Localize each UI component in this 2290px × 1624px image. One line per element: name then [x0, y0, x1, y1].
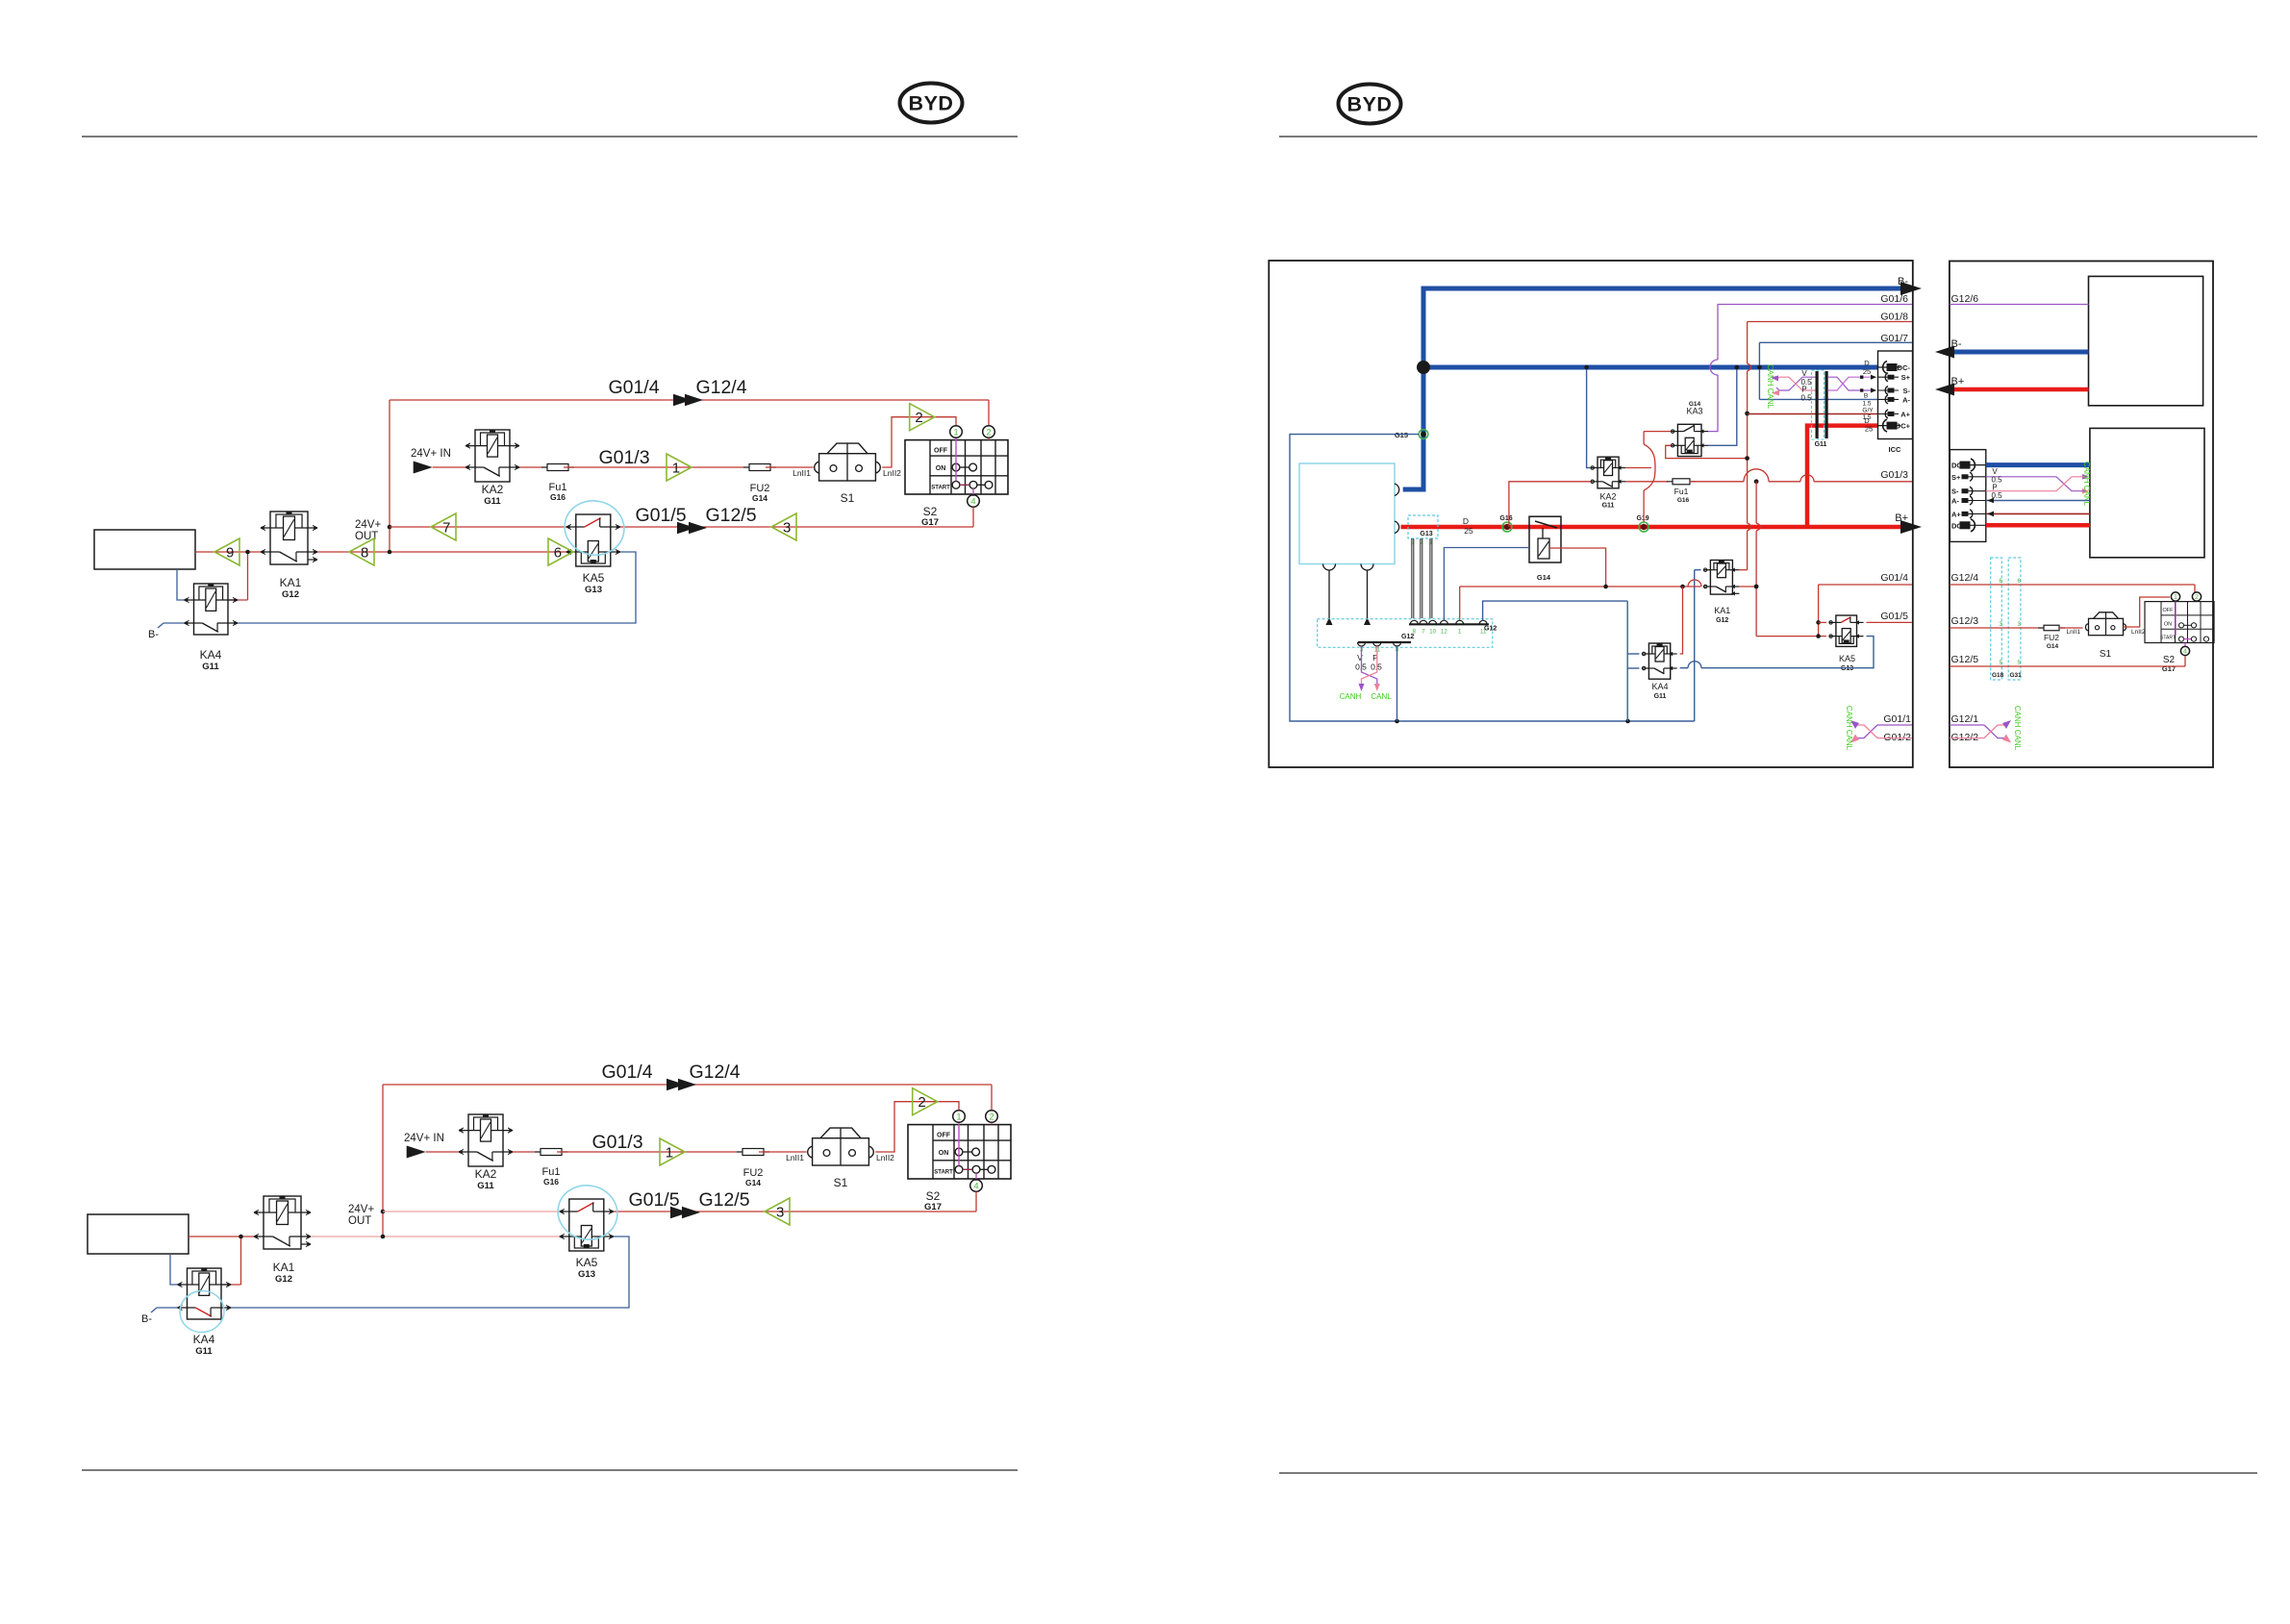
- svg-text:G12: G12: [1716, 617, 1728, 624]
- svg-text:G11: G11: [477, 1181, 494, 1191]
- svg-text:G16: G16: [1677, 497, 1690, 504]
- svg-text:Fu1: Fu1: [1674, 487, 1689, 496]
- svg-text:G01/3: G01/3: [598, 447, 649, 468]
- svg-text:4: 4: [2183, 647, 2187, 656]
- svg-text:11: 11: [1480, 630, 1487, 636]
- svg-text:3: 3: [776, 1205, 784, 1221]
- svg-text:G14: G14: [745, 1178, 761, 1187]
- svg-text:G01/8: G01/8: [1880, 312, 1908, 323]
- svg-text:24V+ IN: 24V+ IN: [404, 1133, 444, 1144]
- svg-text:LnII2: LnII2: [876, 1153, 894, 1162]
- svg-text:25: 25: [1863, 367, 1871, 376]
- svg-text:S+: S+: [1951, 473, 1961, 482]
- svg-text:LnII1: LnII1: [793, 468, 811, 478]
- svg-text:S2: S2: [926, 1189, 941, 1203]
- svg-text:2: 2: [2195, 592, 2199, 601]
- svg-text:LnII1: LnII1: [2067, 629, 2081, 636]
- svg-text:G13: G13: [578, 1269, 595, 1280]
- svg-text:LnII2: LnII2: [883, 468, 901, 478]
- svg-text:S-: S-: [1903, 387, 1911, 395]
- svg-text:G11: G11: [1815, 441, 1827, 448]
- svg-text:G12: G12: [1401, 634, 1414, 640]
- svg-text:D: D: [1463, 516, 1469, 526]
- svg-text:OFF: OFF: [2163, 608, 2175, 613]
- svg-text:A+: A+: [1951, 510, 1961, 518]
- svg-text:3: 3: [783, 520, 791, 537]
- svg-text:7: 7: [442, 520, 450, 537]
- svg-text:1: 1: [2174, 592, 2177, 601]
- svg-text:G13: G13: [1841, 665, 1853, 672]
- svg-text:G01/7: G01/7: [1880, 333, 1908, 344]
- svg-text:25: 25: [1464, 526, 1473, 536]
- svg-text:CANH CANL: CANH CANL: [2013, 706, 2022, 751]
- svg-text:4: 4: [973, 1181, 978, 1191]
- svg-text:1: 1: [956, 1112, 961, 1122]
- svg-text:LnII1: LnII1: [786, 1153, 804, 1162]
- svg-text:G16: G16: [550, 492, 566, 502]
- svg-text:ICC: ICC: [1889, 445, 1902, 454]
- svg-text:25: 25: [1865, 425, 1873, 434]
- svg-text:G12: G12: [282, 589, 299, 600]
- svg-text:24V+: 24V+: [348, 1204, 374, 1215]
- svg-text:KA2: KA2: [475, 1167, 497, 1181]
- svg-text:G01/1: G01/1: [1883, 713, 1911, 725]
- svg-text:P: P: [1801, 386, 1806, 394]
- svg-text:G11: G11: [202, 662, 219, 672]
- svg-text:KA1: KA1: [273, 1261, 295, 1274]
- svg-text:G14: G14: [2047, 643, 2059, 650]
- svg-text:G15: G15: [1395, 431, 1408, 439]
- svg-text:G01/3: G01/3: [1880, 469, 1908, 481]
- svg-text:B+: B+: [1951, 376, 1965, 387]
- svg-text:OFF: OFF: [934, 448, 948, 455]
- svg-text:B-: B-: [1951, 338, 1962, 350]
- svg-text:KA1: KA1: [1714, 606, 1730, 615]
- svg-text:G12/3: G12/3: [1951, 615, 1979, 627]
- svg-text:2: 2: [918, 1094, 925, 1111]
- svg-text:G12/5: G12/5: [1951, 654, 1979, 665]
- svg-text:ON: ON: [939, 1150, 949, 1157]
- svg-text:1.5: 1.5: [1862, 401, 1871, 408]
- svg-text:2: 2: [986, 427, 991, 437]
- svg-text:CANL: CANL: [1371, 692, 1392, 701]
- svg-text:0.5: 0.5: [1800, 394, 1812, 403]
- svg-text:G19: G19: [1636, 515, 1648, 522]
- svg-text:G01/6: G01/6: [1880, 293, 1908, 305]
- svg-text:BYD: BYD: [909, 92, 954, 115]
- svg-text:B: B: [1864, 393, 1868, 400]
- svg-text:0.5: 0.5: [1371, 662, 1382, 672]
- svg-text:OFF: OFF: [937, 1133, 951, 1139]
- svg-text:1: 1: [953, 427, 958, 437]
- svg-text:START: START: [934, 1170, 953, 1176]
- svg-text:G11: G11: [1602, 503, 1615, 510]
- svg-text:ON: ON: [936, 465, 946, 472]
- svg-text:1: 1: [666, 1145, 673, 1162]
- svg-text:12: 12: [1441, 630, 1447, 636]
- svg-text:2: 2: [915, 410, 922, 426]
- svg-text:KA3: KA3: [1686, 407, 1702, 416]
- svg-text:G01/3: G01/3: [591, 1132, 642, 1153]
- svg-text:G12: G12: [275, 1274, 292, 1285]
- svg-text:D: D: [1864, 359, 1870, 367]
- svg-text:G14: G14: [752, 493, 768, 503]
- svg-text:G13: G13: [1420, 531, 1432, 537]
- svg-text:9: 9: [226, 545, 234, 562]
- svg-text:S+: S+: [1901, 373, 1911, 382]
- svg-text:A-: A-: [1902, 395, 1910, 404]
- svg-text:B-: B-: [1898, 276, 1908, 287]
- svg-text:G16: G16: [1499, 515, 1512, 522]
- svg-text:CANH CANL: CANH CANL: [2082, 462, 2091, 507]
- svg-text:24V+: 24V+: [355, 519, 381, 531]
- svg-text:4: 4: [970, 496, 975, 507]
- svg-text:A-: A-: [1951, 497, 1959, 506]
- svg-text:KA4: KA4: [1651, 682, 1668, 691]
- svg-text:S-: S-: [1951, 487, 1959, 496]
- svg-text:B-: B-: [148, 629, 159, 640]
- svg-text:B-: B-: [141, 1313, 152, 1325]
- svg-text:G12/6: G12/6: [1951, 293, 1979, 305]
- svg-text:START: START: [931, 486, 950, 491]
- svg-text:KA5: KA5: [1839, 654, 1855, 663]
- svg-text:CANH: CANH: [1340, 692, 1362, 701]
- svg-text:G01/4: G01/4: [1880, 572, 1908, 584]
- svg-text:START: START: [2160, 636, 2176, 641]
- svg-text:G01/4: G01/4: [601, 1062, 652, 1083]
- svg-text:KA5: KA5: [576, 1256, 598, 1269]
- svg-text:KA4: KA4: [200, 648, 222, 662]
- svg-text:G12/5: G12/5: [705, 505, 756, 526]
- svg-text:G11: G11: [195, 1346, 213, 1357]
- svg-text:KA2: KA2: [1599, 492, 1616, 502]
- svg-text:KA2: KA2: [482, 483, 504, 496]
- svg-text:S1: S1: [834, 1176, 848, 1189]
- svg-text:CANH CANL: CANH CANL: [1845, 706, 1853, 751]
- svg-text:LnII2: LnII2: [2131, 629, 2146, 636]
- svg-text:KA1: KA1: [280, 576, 302, 589]
- svg-text:S1: S1: [841, 491, 855, 505]
- svg-text:G13: G13: [585, 585, 602, 595]
- svg-text:G18: G18: [1992, 672, 2004, 679]
- svg-text:G31: G31: [2010, 672, 2023, 679]
- svg-text:V: V: [1801, 369, 1807, 378]
- svg-text:BYD: BYD: [1347, 93, 1393, 116]
- svg-text:G12/4: G12/4: [695, 377, 746, 398]
- svg-text:A+: A+: [1900, 411, 1910, 419]
- svg-text:KA4: KA4: [193, 1333, 215, 1346]
- svg-text:1: 1: [672, 461, 680, 477]
- svg-text:ON: ON: [2164, 621, 2172, 627]
- svg-text:8: 8: [361, 545, 368, 562]
- svg-text:10: 10: [1429, 630, 1436, 636]
- svg-text:FU2: FU2: [2044, 633, 2059, 642]
- svg-text:G14: G14: [1537, 573, 1551, 582]
- svg-text:2: 2: [989, 1112, 994, 1122]
- svg-text:V: V: [1357, 653, 1363, 662]
- svg-text:6: 6: [554, 545, 562, 562]
- svg-text:G01/5: G01/5: [1880, 611, 1908, 622]
- svg-text:B+: B+: [1895, 512, 1908, 524]
- svg-text:G/Y: G/Y: [1862, 408, 1874, 414]
- svg-text:24V+ IN: 24V+ IN: [411, 448, 451, 460]
- svg-text:G12/1: G12/1: [1951, 713, 1979, 725]
- svg-text:G12/4: G12/4: [689, 1062, 740, 1083]
- svg-text:G16: G16: [543, 1177, 559, 1187]
- svg-text:S2: S2: [923, 505, 938, 518]
- svg-text:CANH CANL: CANH CANL: [1766, 364, 1774, 410]
- svg-text:S1: S1: [2100, 649, 2112, 660]
- svg-text:OUT: OUT: [348, 1215, 371, 1227]
- svg-text:G11: G11: [1654, 693, 1667, 700]
- svg-text:G12/4: G12/4: [1951, 572, 1979, 584]
- svg-text:G11: G11: [484, 496, 501, 507]
- svg-text:G12/5: G12/5: [698, 1189, 749, 1211]
- svg-text:0.5: 0.5: [1991, 491, 2002, 500]
- svg-text:KA5: KA5: [583, 571, 605, 585]
- svg-text:G01/4: G01/4: [608, 377, 659, 398]
